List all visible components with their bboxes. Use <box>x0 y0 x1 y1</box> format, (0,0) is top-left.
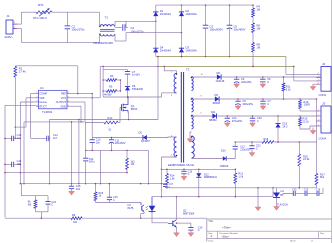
svg-text:T1: T1 <box>105 16 109 20</box>
svg-text:CON4: CON4 <box>319 93 327 97</box>
svg-text:RT1: RT1 <box>38 3 44 7</box>
capacitor C12b <box>233 141 252 151</box>
diode D4 <box>153 46 171 53</box>
wire feed line to J2 pin3 <box>293 66 316 81</box>
resistor R4 <box>252 5 261 18</box>
wire pin5 drop <box>23 122 25 184</box>
svg-text:CM-6030/30-3R0: CM-6030/30-3R0 <box>93 41 113 45</box>
svg-text:100n/630V: 100n/630V <box>210 28 224 32</box>
label clamp value <box>104 93 112 97</box>
transistor Q2 <box>168 210 195 228</box>
title block <box>207 219 332 242</box>
svg-text:24.3k: 24.3k <box>303 157 310 161</box>
svg-text:C: C <box>198 229 200 232</box>
svg-text:1.8k: 1.8k <box>170 177 175 180</box>
capacitor C19 <box>181 169 193 180</box>
capacitor C17 <box>163 183 174 189</box>
svg-text:1N4937: 1N4937 <box>141 140 150 143</box>
svg-text:1N4148: 1N4148 <box>216 80 225 83</box>
svg-text:220V~: 220V~ <box>5 35 14 39</box>
wire GND pin5 net <box>24 106 84 122</box>
wire Q2 emitter <box>176 227 178 233</box>
ground Q2 <box>174 233 180 237</box>
wire AC line 2 <box>126 32 182 34</box>
svg-text:3: 3 <box>36 101 37 103</box>
shunt regulator U2 TL431 <box>273 188 288 207</box>
wire VCC pin7 net <box>70 97 101 99</box>
svg-text:2: 2 <box>36 96 37 98</box>
resistor R2 <box>28 196 37 212</box>
pin numbers T2 <box>171 72 204 157</box>
capacitor C6 <box>234 77 252 84</box>
svg-text:COMP: COMP <box>39 92 47 96</box>
svg-text:U1: U1 <box>40 86 44 90</box>
ground J3 <box>310 128 316 135</box>
resistor R11 <box>282 76 291 99</box>
transformer T2 <box>168 68 194 167</box>
wire secondary row1 <box>192 76 217 78</box>
svg-text:C: C <box>267 102 269 106</box>
svg-text:Document Number: Document Number <box>220 232 239 235</box>
resistor R3 <box>103 74 120 82</box>
common-mode choke T1 <box>93 12 115 45</box>
capacitor C14b <box>225 116 243 123</box>
wire clamp right <box>120 79 122 92</box>
svg-text:Sheet: Sheet <box>290 239 296 242</box>
svg-text:D9: D9 <box>215 93 219 97</box>
svg-text:4: 4 <box>318 124 319 126</box>
capacitor C11 <box>109 137 126 151</box>
svg-text:330u/25v: 330u/25v <box>242 102 253 106</box>
wire sense line <box>50 119 159 121</box>
svg-text:MMT3904: MMT3904 <box>183 212 195 215</box>
capacitor C24 <box>83 122 95 184</box>
svg-text:6: 6 <box>68 101 69 103</box>
svg-text:1N4004A: 1N4004A <box>186 49 197 53</box>
resistor R5 <box>103 85 120 93</box>
svg-text:MMBZ5241: MMBZ5241 <box>204 176 218 179</box>
svg-text:C13: C13 <box>304 189 309 192</box>
wire VCC vertical <box>91 94 93 138</box>
wire Q2 base <box>168 222 173 225</box>
wire C14 top <box>176 222 191 224</box>
svg-text:1N4004A: 1N4004A <box>160 12 171 16</box>
wire bottom input rail <box>22 42 100 44</box>
wire AC line 1 <box>126 21 157 23</box>
wire R1 bottom to divider <box>15 77 16 139</box>
wire drain node line <box>103 96 162 98</box>
wire VFB pin2 net <box>15 98 37 128</box>
transistor Q1 MOSFET <box>122 97 138 113</box>
wire R19 to J3 <box>300 110 316 112</box>
wire RT/CT pin4 net <box>5 105 36 217</box>
ground C26 <box>69 191 75 195</box>
svg-text:3: 3 <box>318 119 319 121</box>
wire primary gnd rail <box>85 150 148 152</box>
capacitor C15 <box>107 183 118 203</box>
wire COMP pin1 net <box>31 94 36 139</box>
capacitor C10b <box>260 99 271 106</box>
ground J2 <box>310 84 316 90</box>
svg-text:EE28POWER1.5S-CE: EE28POWER1.5S-CE <box>168 163 194 167</box>
wire U line <box>152 196 273 198</box>
svg-text:8: 8 <box>68 92 69 94</box>
wire LED cathode to Q2 base <box>152 213 168 223</box>
wire chain mid2 <box>252 33 254 43</box>
svg-text:5: 5 <box>68 105 69 107</box>
svg-text:CON4: CON4 <box>319 137 327 141</box>
wire top divider line <box>235 141 316 143</box>
wire Q2 collector <box>176 197 178 220</box>
svg-text:C: C <box>51 204 53 207</box>
wire OUT pin6 to gate <box>70 102 105 123</box>
svg-text:817B: 817B <box>128 207 134 210</box>
svg-text:7: 7 <box>68 96 69 98</box>
svg-text:1N5819: 1N5819 <box>220 165 229 168</box>
svg-text:100R: 100R <box>304 103 310 107</box>
svg-text:22.1k: 22.1k <box>303 119 310 123</box>
ground C9 <box>235 105 241 110</box>
svg-text:C: C <box>257 119 259 123</box>
svg-text:470u/25v: 470u/25v <box>232 119 243 123</box>
wire top input rail <box>22 11 100 13</box>
resistor R18 <box>262 138 274 144</box>
connector J2 <box>316 62 331 97</box>
resistor R13 <box>234 169 244 197</box>
zener diode D12 <box>196 169 217 196</box>
wire D10 out <box>227 149 235 159</box>
svg-text:VFB: VFB <box>39 96 44 100</box>
svg-text:OUTPUT: OUTPUT <box>56 100 67 104</box>
wire left feedback rail <box>21 183 165 185</box>
svg-text:1.0k: 1.0k <box>238 175 243 178</box>
capacitor C23 <box>46 196 57 212</box>
svg-text:8k2: 8k2 <box>320 175 325 179</box>
resistor R14 <box>166 169 176 188</box>
diode D1 <box>153 9 171 16</box>
svg-text:1: 1 <box>318 109 319 111</box>
svg-text:10n: 10n <box>96 141 101 144</box>
resistor R12 <box>104 116 118 131</box>
wire REF pin8 net <box>70 93 93 95</box>
wire row3 out <box>218 115 316 117</box>
svg-text:VCC: VCC <box>61 96 67 100</box>
svg-text:C: C <box>113 199 115 202</box>
capacitor C14 <box>188 223 203 233</box>
wire source to sense line <box>127 113 130 120</box>
ground C6 <box>234 83 240 88</box>
svg-text:3: 3 <box>318 79 319 81</box>
resistor R8 <box>252 43 261 53</box>
svg-text:Date:: Date: <box>208 239 214 242</box>
wire DC+ top rail <box>156 4 253 6</box>
svg-text:J2: J2 <box>322 62 325 66</box>
wire row2 to divider <box>316 99 318 142</box>
capacitor C4 <box>123 24 144 33</box>
wire gate lead <box>118 108 122 123</box>
svg-text:4: 4 <box>318 83 319 85</box>
diode D10 <box>220 150 229 168</box>
op-amp U1 PWM controller TL3843 <box>36 86 69 114</box>
resistor R9 <box>71 214 82 224</box>
svg-text:1N4004A: 1N4004A <box>186 12 197 16</box>
resistor R19 <box>299 99 310 111</box>
ground C10b <box>260 105 266 110</box>
svg-text:1: 1 <box>318 73 319 75</box>
wire drop x78 <box>78 120 80 185</box>
wire fb corner to R2 block <box>21 184 48 196</box>
svg-text:NTC-10D-9: NTC-10D-9 <box>33 16 47 20</box>
svg-text:100n/275v: 100n/275v <box>72 28 86 32</box>
svg-text:D8: D8 <box>217 71 221 75</box>
wire sense left drop <box>49 120 51 185</box>
svg-text:U2: U2 <box>280 189 284 193</box>
capacitor C9 <box>235 99 253 106</box>
wire DC- to J2 pin1 <box>286 57 316 75</box>
wire fb gnd drop <box>257 188 259 207</box>
svg-text:C: C <box>188 173 190 176</box>
wire aux bottom <box>161 157 177 197</box>
optocoupler U3 <box>128 197 156 213</box>
svg-text:D11: D11 <box>211 110 216 114</box>
wire chain mid1 <box>252 17 254 23</box>
wire opto collector line <box>96 202 142 204</box>
svg-text:A: A <box>211 234 213 238</box>
svg-text:1n/1kV: 1n/1kV <box>132 73 140 77</box>
wire lower gnd rail left <box>4 172 127 174</box>
svg-text:Isense: Isense <box>39 100 47 104</box>
svg-text:SB360: SB360 <box>209 119 217 122</box>
svg-text:M3: M3 <box>28 203 32 206</box>
wire row1 out <box>222 76 321 78</box>
svg-text:C: C <box>256 147 258 150</box>
resistor R10 <box>126 150 136 173</box>
resistor R6 <box>252 23 261 33</box>
capacitor C16b <box>250 116 262 123</box>
capacitor C5 <box>227 5 246 56</box>
diode D8 <box>216 71 225 83</box>
svg-text:REF: REF <box>61 92 67 96</box>
wire R1 feed line <box>15 66 78 94</box>
ground C16b <box>250 122 256 127</box>
capacitors C23 C13 C18 <box>283 188 323 196</box>
wire right feedback rail <box>165 187 316 189</box>
svg-text:1: 1 <box>36 92 37 94</box>
svg-text:C: C <box>267 80 269 84</box>
svg-text:RT/CT: RT/CT <box>39 104 47 108</box>
ground C8 <box>260 83 266 88</box>
wire DC- bottom rail <box>156 56 286 58</box>
svg-text:D5: D5 <box>139 131 143 135</box>
wire clamp top <box>103 66 127 69</box>
ground C14b <box>224 122 230 127</box>
sheet border frame <box>331 0 333 243</box>
svg-text:TL3843: TL3843 <box>42 110 53 114</box>
wire S4 bottom to D10 <box>192 158 223 160</box>
wire startup/feed line <box>100 66 294 68</box>
wire opto emitter down <box>140 212 144 219</box>
svg-text:D10: D10 <box>221 150 226 153</box>
wire clamp left <box>102 70 104 97</box>
diode D9 <box>213 93 221 105</box>
thermistor RT1 <box>33 3 52 20</box>
svg-text:C: C <box>169 186 171 189</box>
wire aux top stub <box>168 136 177 139</box>
capacitor C26 <box>69 184 81 192</box>
svg-text:24.3: 24.3 <box>283 125 288 128</box>
ground C21 <box>249 153 255 157</box>
svg-text:R3: R3 <box>110 74 114 78</box>
wire gnd rail end drop <box>148 150 150 184</box>
connector J3 <box>316 102 331 141</box>
wire row2 out <box>220 98 317 100</box>
connector J1 <box>5 14 18 39</box>
wire T1 to C4 loop <box>115 21 128 41</box>
diode D11 <box>209 110 217 122</box>
capacitor C16 <box>4 159 22 167</box>
svg-text:220u/25v: 220u/25v <box>241 80 252 84</box>
svg-text:100n: 100n <box>89 161 95 164</box>
capacitor C3 <box>203 5 223 56</box>
svg-text:2: 2 <box>318 76 319 78</box>
wire drop x71 <box>71 121 73 184</box>
capacitor C7 <box>125 70 141 86</box>
svg-text:T2: T2 <box>186 68 190 72</box>
wire startup chain top <box>252 4 254 8</box>
ground C14 <box>188 233 194 237</box>
capacitor C8 <box>260 77 271 84</box>
resistor R16 <box>299 116 316 129</box>
capacitor C10 <box>90 138 101 151</box>
wire bridge left column <box>155 5 157 56</box>
svg-text:100u/50V: 100u/50V <box>115 142 126 145</box>
svg-text:5.1k: 5.1k <box>286 87 292 91</box>
wire bridge right column <box>181 4 183 57</box>
zener diode D6 <box>125 84 144 98</box>
svg-text:P6KE200: P6KE200 <box>132 87 144 91</box>
wire chain bottom <box>252 52 254 67</box>
wire right gnd rail <box>161 169 236 171</box>
svg-text:1W: 1W <box>131 163 135 166</box>
capacitor C13 <box>4 133 22 141</box>
svg-text:4n7: 4n7 <box>53 136 58 140</box>
wire drain to primary <box>162 93 177 97</box>
svg-text:GND: GND <box>61 104 67 108</box>
wire bottom drop <box>41 212 43 219</box>
svg-text:<Title>: <Title> <box>222 226 231 230</box>
resistor R20 <box>298 142 310 189</box>
svg-text:102: 102 <box>17 162 22 166</box>
wire primary top feed <box>164 66 176 73</box>
svg-text:104: 104 <box>76 188 81 191</box>
wire secondary row3 <box>192 115 213 117</box>
wire Isense pin3 net <box>20 102 37 184</box>
svg-text:10u/400V: 10u/400V <box>234 28 246 32</box>
svg-text:<Doc>: <Doc> <box>222 235 230 239</box>
svg-text:4k-5W: 4k-5W <box>104 93 112 97</box>
svg-text:R5: R5 <box>109 85 113 89</box>
wire secondary row2 <box>192 98 215 100</box>
wire R2C23 bottom <box>35 211 48 213</box>
wire drop x100 <box>100 150 102 184</box>
capacitor C21 <box>249 142 261 153</box>
svg-text:27.4k: 27.4k <box>19 70 26 74</box>
wire DC- down <box>157 56 159 120</box>
capacitor C12 <box>31 133 59 141</box>
diode D2 <box>179 9 197 16</box>
wire U line riser <box>272 188 274 197</box>
diode D5 <box>92 131 168 143</box>
svg-text:1N4004A: 1N4004A <box>160 49 171 53</box>
ground U2 <box>274 207 280 211</box>
wire bottom rail <box>5 217 207 219</box>
svg-text:TL431CN: TL431CN <box>277 204 288 207</box>
wire vcc corner riser <box>99 66 101 97</box>
svg-text:4: 4 <box>36 105 37 107</box>
resistor R1 <box>14 66 26 77</box>
svg-text:8N60: 8N60 <box>131 107 138 111</box>
ground fb drop <box>255 207 261 211</box>
svg-text:Title: Title <box>208 219 213 223</box>
zener diode D13 <box>276 116 288 143</box>
svg-text:2: 2 <box>318 114 319 116</box>
svg-text:J1: J1 <box>7 14 11 18</box>
ground secondary mid <box>187 132 193 143</box>
capacitor C2 <box>65 12 86 42</box>
svg-text:J3: J3 <box>322 102 325 106</box>
svg-text:C18: C18 <box>316 189 321 192</box>
diode D3 <box>179 46 197 53</box>
resistor R15 <box>94 183 104 203</box>
svg-text:C23: C23 <box>292 189 297 192</box>
wire J1 to rails <box>17 12 22 42</box>
svg-text:R18: R18 <box>264 138 269 141</box>
svg-text:SB360: SB360 <box>213 102 221 105</box>
resistor R17 <box>315 142 325 188</box>
